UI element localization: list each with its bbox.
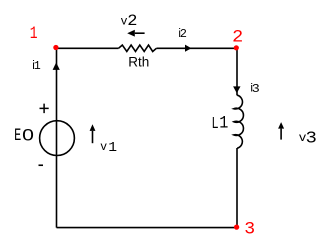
voltage source E0 (circle) xyxy=(40,121,75,156)
svg-text:Rth: Rth xyxy=(128,54,149,70)
plus sign of source xyxy=(40,104,49,114)
resistor Rth xyxy=(119,45,157,51)
inductor L1 xyxy=(234,95,244,148)
svg-text:1: 1 xyxy=(219,113,228,133)
svg-text:3: 3 xyxy=(306,129,317,148)
svg-text:3: 3 xyxy=(252,82,260,96)
svg-text:2: 2 xyxy=(127,12,137,30)
svg-text:2: 2 xyxy=(232,28,243,48)
wire: right side lower, inductor to node 3 xyxy=(236,148,238,228)
wire: left side, node 1 down to bottom-left corner xyxy=(56,48,58,227)
current arrowhead i1 (up, on left wire) xyxy=(53,62,60,70)
svg-text:0: 0 xyxy=(22,127,34,145)
wire: right side upper, node 2 to inductor xyxy=(236,48,238,95)
voltage arrow v1 (up) xyxy=(92,131,94,143)
node 3 dot xyxy=(234,224,239,229)
svg-text:v: v xyxy=(100,141,107,154)
voltage arrow v2 (left) xyxy=(135,32,145,34)
svg-text:1: 1 xyxy=(30,24,38,44)
node 2 dot xyxy=(234,45,239,50)
svg-text:2: 2 xyxy=(180,27,187,41)
svg-text:1: 1 xyxy=(34,59,41,73)
svg-text:1: 1 xyxy=(108,141,117,156)
svg-text:L: L xyxy=(212,115,219,132)
svg-text:E: E xyxy=(14,126,21,146)
wire: top, node 1 to resistor xyxy=(57,47,119,49)
current arrowhead i2 (right, on top wire) xyxy=(185,45,191,52)
wire: bottom, node 3 to bottom-left corner xyxy=(57,227,238,229)
wire: top, resistor to node 2 xyxy=(156,47,237,49)
current arrowhead i3 (down, on right wire) xyxy=(233,86,240,93)
minus sign of source xyxy=(39,164,44,166)
svg-text:3: 3 xyxy=(244,220,255,240)
voltage arrow v3 (up) xyxy=(280,129,282,140)
node 1 dot xyxy=(53,45,58,50)
